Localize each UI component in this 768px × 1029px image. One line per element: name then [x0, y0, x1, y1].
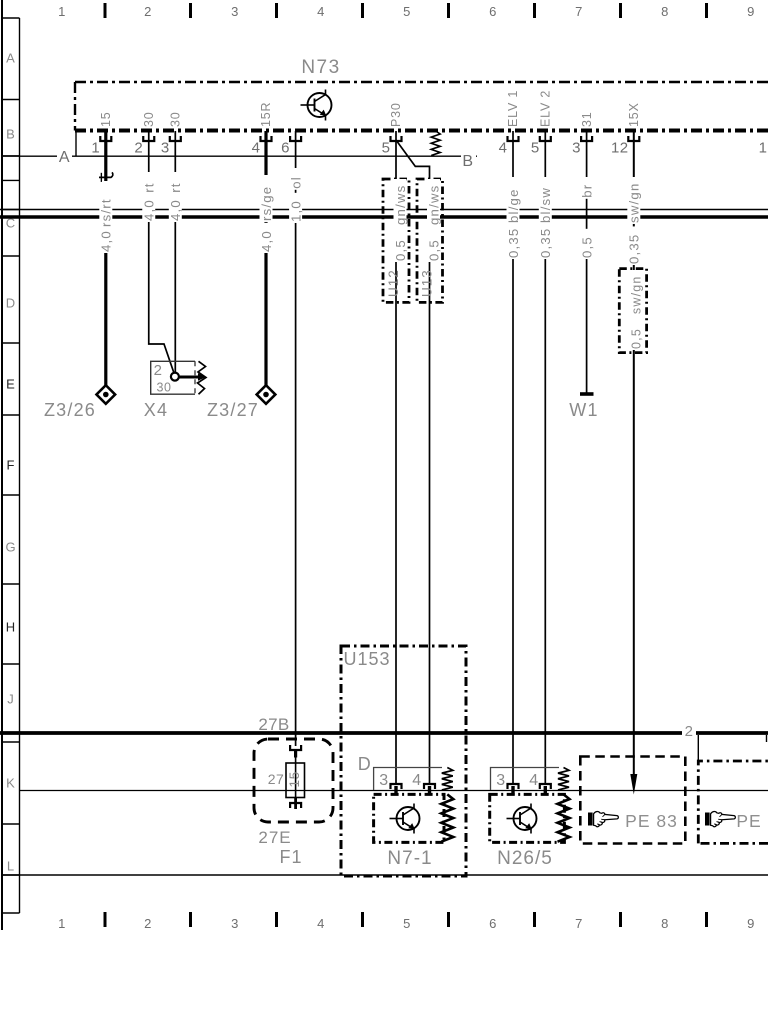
svg-text:N73: N73: [301, 57, 340, 78]
wire label 1,0 ol: [288, 168, 303, 223]
separator line thin (row L): [2, 874, 768, 876]
svg-text:B: B: [6, 127, 15, 142]
wire stub at right edge: [766, 735, 768, 742]
pin 2 of N73 (socket): [143, 136, 154, 141]
label N7-1: [387, 848, 432, 869]
label X4: [144, 400, 168, 420]
svg-text:4: 4: [499, 140, 508, 157]
pin 12 of N73 (socket): [628, 136, 639, 141]
svg-text:rs/ge: rs/ge: [259, 186, 274, 221]
svg-text:Z3/26: Z3/26: [44, 400, 96, 420]
svg-text:4,0: 4,0: [142, 199, 157, 221]
wire 0,35 bl/ge: [512, 131, 514, 784]
svg-text:sw/gn: sw/gn: [629, 275, 643, 314]
svg-text:0,5: 0,5: [579, 236, 594, 258]
pin number 6: [281, 140, 290, 157]
X4 pin label 30: [157, 381, 172, 395]
svg-text:0,35: 0,35: [627, 234, 642, 264]
N7-1 pin number 3: [379, 772, 388, 789]
wire label 4,0 rs/rt: [99, 181, 114, 253]
svg-text:N26/5: N26/5: [497, 848, 553, 869]
svg-text:0,5: 0,5: [426, 239, 441, 261]
svg-text:30: 30: [142, 111, 156, 127]
svg-text:D: D: [6, 296, 15, 311]
signal name 30: [169, 111, 183, 127]
svg-text:27: 27: [268, 771, 285, 787]
transistor symbol in N73: [301, 90, 332, 121]
svg-text:9: 9: [747, 4, 755, 19]
pin 3 of N73 (socket): [581, 136, 592, 141]
connector box U12: [383, 179, 409, 302]
label N26/5: [497, 848, 553, 869]
separator line thin (row C top): [0, 209, 768, 211]
label U13: [420, 269, 435, 297]
pin number 12: [611, 140, 629, 157]
wire 0,5 gn/ws from pin 5 (left): [395, 131, 397, 784]
hand icon PE right: [705, 811, 735, 826]
svg-text:K: K: [6, 776, 15, 791]
wire label 4,0 rt (pin3): [168, 172, 183, 222]
pin number 4: [252, 140, 261, 157]
svg-text:br: br: [579, 184, 594, 198]
svg-text:3: 3: [379, 772, 388, 789]
pin 6 of N73 (socket): [290, 136, 301, 141]
svg-text:1,0: 1,0: [288, 200, 303, 222]
svg-text:9: 9: [747, 916, 755, 931]
N26/5 pin number 4: [529, 772, 538, 789]
svg-text:ELV 2: ELV 2: [539, 90, 553, 127]
N7-1 upper resistor: [442, 768, 453, 791]
control unit N73 box: [75, 82, 768, 156]
wire label 0,5 br: [579, 177, 594, 259]
svg-text:H: H: [6, 620, 15, 635]
svg-text:27B: 27B: [258, 715, 289, 734]
svg-text:G: G: [5, 540, 15, 555]
component box N7-1: [374, 794, 444, 842]
svg-text:7: 7: [575, 916, 583, 931]
wire 4,0 rs/rt from pin 1: [104, 131, 107, 395]
reference box PE 83: [580, 757, 685, 844]
N7-1 pin frame: [374, 768, 442, 791]
wire 0,5 gn/ws branch (right): [396, 140, 430, 784]
pin 4 of N73 (socket): [261, 136, 272, 141]
N26/5 pin frame: [491, 768, 560, 791]
svg-text:15R: 15R: [259, 102, 273, 127]
signal name 31: [580, 111, 594, 127]
svg-text:0,35: 0,35: [506, 228, 521, 258]
svg-text:A: A: [59, 149, 70, 166]
N26/5 pin number 3: [496, 772, 505, 789]
X4 output wire: [179, 373, 206, 381]
connector box U13: [417, 179, 443, 302]
svg-text:B: B: [462, 153, 473, 170]
svg-text:2: 2: [144, 4, 152, 19]
svg-text:8: 8: [661, 4, 669, 19]
svg-text:2: 2: [144, 916, 152, 931]
fuse pin 27E socket: [290, 797, 301, 809]
wire label 0,35 bl/ge: [506, 177, 521, 259]
wire 4,0 rs/ge from pin 4: [264, 131, 267, 395]
separator line thin (row K): [20, 790, 768, 792]
component box N26/5: [490, 794, 565, 842]
svg-text:3: 3: [231, 916, 239, 931]
label U153: [343, 649, 390, 669]
svg-text:2: 2: [685, 723, 694, 740]
ground W1: [580, 392, 594, 396]
signal name ELV 1: [506, 90, 520, 127]
signal name 15X: [627, 102, 641, 127]
svg-text:gn/ws: gn/ws: [426, 185, 441, 225]
wire label 0,35 sw/gn: [627, 177, 642, 265]
svg-text:8: 8: [661, 916, 669, 931]
svg-text:3: 3: [572, 140, 581, 157]
transistor in N7-1: [390, 804, 420, 834]
N26/5 lower resistor: [558, 794, 570, 841]
wire label 4,0 rt (pin2): [142, 172, 157, 222]
svg-text:U153: U153: [343, 649, 390, 669]
connector box on sw/gn wire: [619, 269, 646, 353]
terminal Z3/26 (diamond): [96, 385, 115, 404]
svg-text:U13: U13: [420, 269, 435, 297]
svg-text:5: 5: [403, 4, 411, 19]
svg-text:1: 1: [759, 140, 768, 157]
label 27E: [258, 828, 291, 847]
svg-text:U12: U12: [386, 269, 401, 297]
svg-text:A: A: [6, 51, 15, 66]
pin 5 of N73 (socket): [540, 136, 551, 141]
wire label 0,5 gn/ws (U13): [426, 179, 441, 262]
label D: [358, 754, 372, 774]
signal name P30: [389, 102, 403, 127]
node A: [57, 148, 72, 166]
transistor in N26/5: [507, 804, 537, 834]
svg-text:3: 3: [496, 772, 505, 789]
fuse pin 27B socket: [290, 745, 301, 758]
separator line thick (row J/K): [0, 731, 768, 735]
fuse F1 housing outline: [254, 739, 333, 822]
hand icon PE 83: [588, 811, 618, 826]
crimp joint on wire 1: [99, 173, 113, 183]
svg-text:5: 5: [531, 140, 540, 157]
page left border: [1, 0, 3, 930]
label PE right: [736, 811, 761, 831]
svg-text:30: 30: [169, 111, 183, 127]
pin number 3: [161, 140, 170, 157]
svg-text:3: 3: [161, 140, 170, 157]
svg-text:4: 4: [252, 140, 261, 157]
fuse element F1: [286, 757, 305, 798]
svg-text:1: 1: [91, 140, 100, 157]
pin number 2: [134, 140, 143, 157]
pin 3 of N73 (socket): [170, 136, 181, 141]
svg-text:30: 30: [157, 381, 172, 395]
svg-text:27E: 27E: [258, 828, 291, 847]
pin number 4: [499, 140, 508, 157]
svg-text:N7-1: N7-1: [387, 848, 432, 869]
resistor in N73 at pin 5: [431, 131, 440, 156]
svg-text:31: 31: [580, 111, 594, 127]
svg-text:bl/sw: bl/sw: [538, 187, 553, 223]
svg-text:F1: F1: [279, 847, 302, 867]
svg-text:3: 3: [231, 4, 239, 19]
svg-text:6: 6: [281, 140, 290, 157]
pin 1 of N73 (socket): [100, 136, 111, 141]
svg-text:5: 5: [403, 916, 411, 931]
left ruler column grid: [2, 18, 20, 913]
svg-text:P30: P30: [389, 102, 403, 127]
svg-text:rt: rt: [142, 182, 157, 192]
svg-text:5: 5: [382, 140, 391, 157]
svg-text:D: D: [358, 754, 372, 774]
N7-1 lower resistor: [441, 794, 453, 841]
svg-text:0,5: 0,5: [629, 328, 643, 349]
label F1: [279, 847, 302, 867]
label Z3/27: [207, 400, 259, 420]
top ruler scale: [58, 3, 755, 19]
separator line thick (row C): [0, 215, 768, 218]
label U12: [386, 269, 401, 297]
label N73: [301, 57, 340, 78]
label Z3/26: [44, 400, 96, 420]
svg-text:2: 2: [154, 362, 163, 379]
svg-text:4,0: 4,0: [99, 230, 114, 252]
X4 pin label 2: [154, 362, 163, 379]
svg-text:15X: 15X: [627, 102, 641, 127]
pin number 5: [531, 140, 540, 157]
svg-text:6: 6: [489, 916, 497, 931]
svg-text:E: E: [6, 377, 15, 392]
svg-text:bl/ge: bl/ge: [506, 188, 521, 223]
fuse value 15: [287, 771, 302, 788]
node B: [461, 152, 476, 170]
svg-text:rs/rt: rs/rt: [99, 198, 114, 227]
label W1: [569, 400, 598, 420]
wire 1,0 ol from pin 6: [295, 131, 297, 746]
pin number 1 at right edge: [759, 140, 768, 157]
svg-text:gn/ws: gn/ws: [393, 185, 408, 225]
svg-text:15: 15: [99, 111, 113, 127]
svg-text:0,35: 0,35: [538, 228, 553, 258]
svg-text:ELV 1: ELV 1: [506, 90, 520, 127]
X4 junction point: [171, 373, 179, 381]
wire 0,35 sw/gn with arrow: [630, 131, 637, 795]
svg-text:1: 1: [58, 4, 66, 19]
left ruler letters A-L: [5, 51, 15, 874]
connector X4 box: [151, 361, 206, 394]
label 27B: [258, 715, 289, 734]
svg-text:4,0: 4,0: [168, 199, 183, 221]
signal name 30: [142, 111, 156, 127]
svg-text:7: 7: [575, 4, 583, 19]
wire 4,0 rt from pin 2: [149, 131, 175, 374]
svg-text:PE 83: PE 83: [625, 811, 678, 831]
wire label 0,5 gn/ws (U12): [393, 179, 408, 262]
pin number 5: [382, 140, 391, 157]
pin 5 of N73 (socket): [391, 136, 402, 141]
N7-1 pin number 4: [412, 772, 421, 789]
svg-text:4: 4: [412, 772, 421, 789]
component box U153: [341, 646, 466, 876]
signal name ELV 2: [539, 90, 553, 127]
terminal Z3/27 (diamond): [257, 385, 276, 404]
svg-text:6: 6: [489, 4, 497, 19]
svg-text:W1: W1: [569, 400, 598, 420]
pin number 3: [572, 140, 581, 157]
N7-1 pin 4 socket: [424, 784, 435, 796]
svg-text:4: 4: [529, 772, 538, 789]
pin 4 of N73 (socket): [508, 136, 519, 141]
N26/5 pin 4 socket: [540, 784, 551, 796]
wire 0,5 br to W1: [586, 131, 588, 393]
svg-text:J: J: [7, 692, 14, 707]
wire 4,0 rt from pin 3: [174, 131, 176, 373]
label 27 in fuse: [268, 771, 285, 787]
signal name 15: [99, 111, 113, 127]
svg-text:rt: rt: [168, 182, 183, 192]
svg-text:4,0: 4,0: [259, 230, 274, 252]
wire label 0,35 bl/sw: [538, 177, 553, 259]
svg-text:4: 4: [317, 4, 325, 19]
svg-text:PE: PE: [736, 811, 761, 831]
wire 0,35 bl/sw: [544, 131, 546, 784]
svg-text:1: 1: [58, 916, 66, 931]
svg-text:sw/gn: sw/gn: [627, 183, 642, 223]
bus line A-B: [2, 155, 477, 157]
crimp joint on wire 1 (redraw): [99, 172, 113, 182]
svg-text:Z3/27: Z3/27: [207, 400, 259, 420]
svg-text:4: 4: [317, 916, 325, 931]
N7-1 pin 3 socket: [391, 784, 402, 796]
N26/5 pin 3 socket: [508, 784, 519, 796]
svg-text:2: 2: [134, 140, 143, 157]
svg-text:ol: ol: [288, 176, 303, 189]
wire 2 to PE box: [697, 735, 699, 761]
signal name 15R: [259, 102, 273, 127]
wire label 4,0 rs/ge: [259, 175, 274, 253]
label PE 83: [625, 811, 678, 831]
reference box PE (right): [698, 761, 768, 843]
svg-text:12: 12: [611, 140, 629, 157]
N26/5 upper resistor: [558, 768, 569, 791]
bottom ruler scale: [58, 912, 755, 931]
wire label 0,5 sw/gn in box: [629, 270, 643, 350]
svg-text:L: L: [7, 859, 14, 874]
pin number 1: [91, 140, 100, 157]
svg-text:X4: X4: [144, 400, 168, 420]
label 2 on PE wire: [682, 721, 696, 740]
svg-text:15: 15: [287, 771, 302, 788]
svg-text:0,5: 0,5: [393, 239, 408, 261]
svg-text:F: F: [7, 458, 15, 473]
